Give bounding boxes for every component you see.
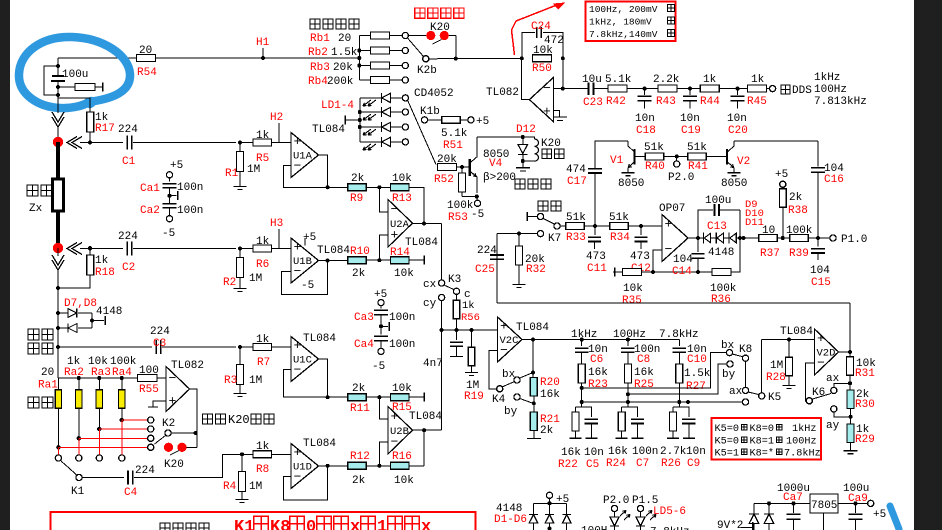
svg-text:+: +: [294, 338, 302, 353]
svg-text:U1D: U1D: [293, 462, 312, 474]
svg-text:R50: R50: [532, 63, 552, 75]
svg-text:1k: 1k: [95, 255, 109, 267]
svg-text:1M: 1M: [249, 273, 262, 285]
svg-text:R20: R20: [540, 377, 560, 389]
svg-text:LD5-6: LD5-6: [653, 506, 686, 518]
svg-text:R51: R51: [443, 140, 463, 152]
resistor R5 1k: [240, 142, 253, 144]
label jixie kaiguan (mechanical switch) K20: [415, 8, 425, 18]
chevron left at node B: [67, 243, 77, 255]
svg-text:100k: 100k: [786, 225, 813, 237]
U1D feedback loop: [284, 466, 328, 500]
svg-text:LD1-4: LD1-4: [321, 100, 354, 112]
transistor V4 8050: [469, 159, 471, 176]
svg-text:10n: 10n: [686, 446, 706, 458]
tick terminal LED bus: [344, 116, 346, 125]
second stage col1 R22 C5: [575, 407, 577, 412]
svg-text:Rb3: Rb3: [310, 62, 330, 74]
label xianliu dianzu (current-limiting resistors): [310, 19, 320, 29]
svg-text:K4: K4: [492, 394, 506, 406]
switch K6: [806, 398, 812, 404]
svg-text:R31: R31: [855, 368, 875, 380]
capacitor C20 10n: [736, 87, 740, 91]
rectifier diode Da: [753, 503, 755, 514]
svg-text:R37: R37: [760, 248, 780, 260]
second stage col3 R26 C9: [672, 407, 674, 412]
capacitor Ca2 100n: [163, 203, 177, 205]
svg-text:200k: 200k: [327, 76, 354, 88]
svg-text:16k: 16k: [634, 367, 654, 379]
svg-text:224: 224: [477, 245, 497, 257]
switch bx (left): [514, 377, 520, 383]
svg-text:1k: 1k: [256, 441, 270, 453]
svg-text:C8: C8: [637, 354, 650, 366]
resistor R31 10k: [849, 352, 851, 357]
svg-text:C16: C16: [824, 174, 844, 186]
switch K2b: [408, 38, 424, 56]
svg-text:100Hz: 100Hz: [814, 84, 847, 96]
switch K1: [61, 461, 70, 469]
svg-text:K1b: K1b: [420, 106, 440, 118]
relay contacts K20 red dots bottom: [164, 443, 173, 452]
resistor R3 1M: [238, 345, 242, 349]
svg-text:2k: 2k: [352, 475, 366, 487]
capacitor C3 224: [58, 346, 152, 348]
LED bus: [359, 98, 361, 142]
resistor R51 5.1k: [442, 117, 461, 124]
resistor R19 1M: [471, 330, 473, 347]
diode D12: [522, 137, 524, 145]
resistor R15 10k: [391, 394, 410, 401]
svg-text:+: +: [500, 319, 508, 334]
svg-text:D7,D8: D7,D8: [64, 298, 97, 310]
svg-text:R14: R14: [390, 247, 410, 259]
svg-text:9V*2: 9V*2: [717, 520, 743, 530]
wire TL082 inverting input node: [562, 58, 564, 89]
svg-text:K8: K8: [739, 344, 752, 356]
svg-text:C14: C14: [672, 266, 692, 278]
svg-text:Ca1: Ca1: [140, 183, 160, 195]
wire V2D output riser to phase wire: [849, 303, 851, 352]
svg-text:224: 224: [150, 326, 170, 338]
resistor Rb3: [359, 65, 370, 67]
label shuzidi (digital ground): [515, 179, 525, 189]
resistor R1 1M: [238, 141, 242, 145]
terminal -5 Ca4: [378, 348, 384, 354]
svg-text:K8: K8: [270, 518, 290, 530]
wire by bus (100Hz tap): [628, 364, 727, 394]
svg-text:R44: R44: [700, 96, 720, 108]
resistor R10 2k: [348, 257, 367, 264]
resistor R37 10: [759, 235, 778, 242]
resistor R8 1k: [242, 453, 253, 455]
capacitor C10 10n: [678, 340, 680, 347]
svg-text:R30: R30: [855, 399, 875, 411]
ground at TL082b plus input: [153, 401, 166, 407]
impedance Zx upper arm: [56, 142, 60, 179]
terminal to DDS: [767, 88, 770, 90]
svg-text:U2B: U2B: [390, 426, 409, 438]
svg-text:R18: R18: [95, 267, 115, 279]
svg-text:16k: 16k: [608, 446, 628, 458]
resistor R43 2.2k: [658, 85, 677, 92]
svg-text:1kHz: 1kHz: [792, 423, 816, 435]
resistor R38 2k: [781, 236, 785, 240]
resistor Rb4: [359, 79, 370, 81]
switch K3 cx: [439, 280, 445, 286]
svg-text:7.8kHz: 7.8kHz: [784, 448, 821, 460]
V2C feedback to K4: [489, 351, 498, 389]
svg-text:1k: 1k: [256, 130, 270, 142]
svg-text:C11: C11: [587, 263, 607, 275]
capacitor C17 474: [595, 141, 628, 169]
switch K3 c terminal: [453, 288, 459, 294]
capacitor C4 224: [82, 477, 124, 479]
diode clamp bus: [534, 502, 567, 504]
resistor R12 2k: [348, 462, 367, 469]
svg-text:0: 0: [306, 518, 316, 530]
svg-text:1M: 1M: [247, 164, 260, 176]
capacitor Ca3 100n: [374, 309, 388, 311]
svg-text:ax: ax: [826, 373, 840, 385]
svg-text:K20: K20: [228, 413, 250, 427]
svg-text:R8: R8: [256, 464, 269, 476]
svg-text:H1: H1: [256, 37, 270, 49]
capacitor C18 10n: [643, 87, 647, 91]
svg-text:1k: 1k: [462, 300, 475, 312]
svg-text:100n: 100n: [632, 446, 658, 458]
svg-text:x: x: [350, 518, 360, 530]
svg-text:2k: 2k: [540, 425, 554, 437]
wire bx bus (1kHz tap): [582, 353, 726, 388]
svg-text:K5: K5: [768, 392, 781, 404]
LED LD4: [360, 141, 382, 143]
svg-text:H2: H2: [270, 112, 283, 124]
red annotation box bottom: [51, 512, 476, 530]
capacitor C8 100n: [626, 338, 630, 342]
svg-text:V2C: V2C: [500, 335, 519, 347]
capacitor C6 10n: [580, 338, 584, 342]
svg-text:R12: R12: [350, 451, 370, 463]
switch ay circle: [742, 399, 748, 405]
resistor R4 1M: [240, 452, 244, 456]
svg-text:20: 20: [41, 367, 54, 379]
svg-text:474: 474: [566, 164, 586, 176]
svg-text:R56: R56: [461, 312, 480, 324]
switch by (right): [727, 361, 733, 367]
svg-text:R28: R28: [766, 372, 786, 384]
svg-text:R1: R1: [225, 168, 239, 180]
resistor R25 16k: [624, 364, 631, 383]
wire C25 column: [496, 234, 498, 303]
svg-text:7.8kHz: 7.8kHz: [650, 527, 690, 530]
svg-text:bx: bx: [502, 369, 516, 381]
LED LD3: [360, 126, 382, 128]
svg-text:R4: R4: [223, 481, 237, 493]
svg-text:cy: cy: [423, 298, 437, 310]
svg-text:R39: R39: [789, 248, 809, 260]
svg-text:2k: 2k: [789, 192, 803, 204]
resistor R9 2k: [328, 186, 348, 188]
svg-text:R2: R2: [223, 277, 236, 289]
svg-text:C24: C24: [531, 21, 551, 33]
op-amp U2B TL084: [388, 407, 413, 455]
wire main top bus y58: [58, 57, 137, 59]
svg-text:+: +: [294, 134, 302, 149]
power input wire: [741, 527, 753, 529]
red info box mV peaks: [586, 2, 676, 42]
svg-text:K2b: K2b: [417, 65, 437, 77]
svg-text:K1: K1: [71, 486, 85, 498]
resistor R20 16k: [532, 340, 534, 373]
wire K2b to main: [429, 57, 522, 60]
svg-text:100H: 100H: [581, 526, 607, 530]
svg-text:224: 224: [118, 231, 138, 243]
svg-text:-5: -5: [372, 361, 385, 373]
svg-text:C15: C15: [811, 277, 831, 289]
node B red (lower bridge node): [53, 243, 63, 253]
svg-text:+5: +5: [775, 169, 788, 181]
svg-text:ay: ay: [826, 420, 840, 432]
svg-text:100n: 100n: [389, 312, 415, 324]
svg-text:R10: R10: [350, 246, 370, 258]
svg-text:1kHz: 1kHz: [814, 72, 840, 84]
resistor R40 51k: [645, 153, 664, 160]
capacitor C16 104: [817, 141, 819, 167]
TL082b output wire: [190, 389, 198, 447]
svg-text:R34: R34: [610, 232, 630, 244]
power rail wire: [754, 502, 810, 504]
svg-text:K2: K2: [162, 418, 175, 430]
svg-text:R38: R38: [788, 205, 808, 217]
relay coil K20: [523, 137, 535, 139]
svg-text:V2: V2: [737, 156, 750, 168]
svg-text:1k: 1k: [703, 74, 717, 86]
diode D3: [566, 503, 568, 514]
svg-text:10n: 10n: [584, 447, 604, 459]
svg-text:R35: R35: [622, 295, 642, 307]
svg-text:16k: 16k: [540, 389, 560, 401]
svg-text:x: x: [421, 518, 431, 530]
svg-text:U1A: U1A: [293, 151, 313, 163]
svg-text:C17: C17: [567, 176, 587, 188]
svg-text:+: +: [665, 217, 673, 232]
svg-text:10k: 10k: [394, 475, 414, 487]
resistor R13 10k: [391, 184, 410, 191]
svg-text:R52: R52: [434, 174, 454, 186]
svg-text:+: +: [543, 104, 551, 119]
svg-text:10n: 10n: [727, 113, 747, 125]
diode D1: [533, 503, 535, 514]
resistor R28 1M: [788, 340, 790, 358]
op-amp U2A TL084: [388, 200, 413, 248]
svg-text:10k: 10k: [392, 173, 412, 185]
svg-text:R29: R29: [855, 434, 875, 446]
capacitor C2 224: [88, 247, 92, 251]
svg-text:R32: R32: [526, 264, 546, 276]
U1B feedback loop with -5 pin: [282, 261, 328, 295]
wire OP07 inverting feedback: [653, 250, 662, 272]
resistor Rb1: [359, 35, 370, 37]
resistor R45 1k: [748, 85, 767, 92]
U2A inverting input wire: [379, 187, 388, 212]
svg-text:C9: C9: [687, 458, 700, 470]
diode D2: [549, 503, 551, 514]
svg-text:Rb2: Rb2: [308, 47, 328, 59]
svg-text:Rb4: Rb4: [308, 76, 328, 88]
svg-text:100u: 100u: [705, 195, 731, 207]
svg-text:20k: 20k: [437, 154, 457, 166]
svg-text:Ca3: Ca3: [354, 312, 374, 324]
svg-text:R5: R5: [256, 153, 269, 165]
capacitor Ca4 100n: [374, 335, 388, 337]
U1C feedback loop: [284, 370, 328, 398]
node top-left corner: [57, 58, 59, 75]
svg-text:1k: 1k: [256, 236, 270, 248]
svg-text:Ca4: Ca4: [354, 339, 374, 351]
chevron left at node A: [67, 137, 77, 149]
capacitor 4n7: [456, 330, 458, 340]
svg-text:100Hz: 100Hz: [786, 437, 817, 448]
resistor R54 20: [137, 55, 156, 62]
svg-text:+5: +5: [170, 160, 183, 172]
svg-text:+5: +5: [873, 509, 886, 521]
mid tap tick Ca3/Ca4: [379, 324, 383, 328]
capacitor C15 104: [817, 238, 819, 247]
svg-text:R11: R11: [350, 403, 370, 415]
U1B output node: [326, 259, 330, 263]
label lia ge K20 liandong (two K20 linked): [202, 414, 212, 424]
capacitor 100u: [52, 75, 64, 77]
transistor V2 8050: [726, 149, 728, 165]
transistor V1 8050: [633, 149, 635, 165]
svg-text:1k: 1k: [751, 74, 765, 86]
svg-text:R40: R40: [645, 161, 665, 173]
svg-text:51k: 51k: [644, 142, 664, 154]
svg-text:C2: C2: [122, 262, 135, 274]
svg-text:CD4052: CD4052: [414, 88, 454, 100]
svg-text:10u: 10u: [582, 74, 602, 86]
second stage col2 R24 C7: [621, 407, 623, 412]
svg-text:20k: 20k: [333, 62, 353, 74]
svg-text:100k: 100k: [447, 200, 474, 212]
switch K20 contacts red dots: [408, 35, 426, 37]
svg-text:7.8kHz,140mV: 7.8kHz,140mV: [589, 29, 658, 40]
svg-text:TL084: TL084: [780, 326, 813, 338]
svg-text:10k: 10k: [394, 268, 414, 280]
svg-text:473: 473: [586, 251, 606, 263]
svg-text:-5: -5: [301, 280, 314, 292]
svg-text:1kHz: 1kHz: [571, 329, 597, 341]
svg-text:8050: 8050: [618, 178, 644, 190]
switch K7 upper tick: [526, 212, 528, 221]
trim resistor inside blue circle: [56, 85, 60, 89]
right dark border bar: [914, 0, 942, 530]
resistor Ra1 yellow: [57, 378, 59, 390]
svg-text:100n: 100n: [177, 205, 203, 217]
resistor R16 10k: [391, 462, 410, 469]
resistor R44 1k: [700, 85, 719, 92]
switch K1b: [421, 117, 427, 123]
svg-text:8050: 8050: [721, 178, 747, 190]
svg-text:TL084: TL084: [312, 124, 345, 136]
regulator 7805: [810, 494, 838, 513]
terminal +5 output: [868, 500, 874, 506]
resistor R55 100: [138, 375, 158, 382]
svg-text:ax: ax: [729, 386, 743, 398]
svg-text:+5: +5: [556, 494, 569, 506]
resistor Ra4 yellow: [121, 378, 123, 390]
svg-text:2k: 2k: [352, 383, 366, 395]
terminal -5 under V4: [476, 197, 478, 201]
wire ay bus: [582, 401, 743, 403]
LED LD2: [360, 111, 382, 113]
red annotation arrow: [512, 5, 559, 56]
svg-text:4n7: 4n7: [423, 358, 443, 370]
resistor R39 100k: [790, 235, 809, 242]
capacitor C11 473: [594, 226, 596, 235]
resistor Ra2 yellow: [78, 378, 80, 390]
svg-text:P2.0: P2.0: [668, 172, 694, 184]
Rb bus vertical: [358, 36, 360, 81]
switch K2 common: [165, 430, 171, 436]
resistor R42 5.1k: [608, 85, 627, 92]
wire TL082 output loop: [522, 58, 530, 99]
wire to V2C plus input: [442, 329, 498, 331]
svg-text:2k: 2k: [352, 268, 366, 280]
svg-text:K20: K20: [164, 459, 184, 471]
resistor R33 51k: [560, 225, 566, 227]
svg-text:+5: +5: [476, 116, 489, 128]
svg-text:2.2k: 2.2k: [653, 74, 680, 86]
resistor R17 1k: [58, 98, 90, 112]
svg-text:5.1k: 5.1k: [441, 128, 468, 140]
terminal P1.0: [830, 235, 836, 241]
svg-text:+: +: [169, 394, 177, 409]
chevron down to bridge top: [57, 98, 59, 113]
label dianqiao xudi (bridge virtual ground): [28, 329, 39, 340]
wire U2A output to cx riser: [441, 224, 443, 280]
svg-text:R27: R27: [686, 381, 706, 393]
svg-text:R26: R26: [661, 458, 681, 470]
svg-text:R9: R9: [350, 193, 363, 205]
svg-text:473: 473: [630, 251, 650, 263]
svg-text:224: 224: [135, 465, 155, 477]
svg-text:10k: 10k: [392, 383, 412, 395]
svg-text:Zx: Zx: [29, 203, 43, 215]
capacitor Ca1 100n: [163, 183, 177, 185]
switch by (left): [514, 394, 520, 400]
svg-text:100: 100: [139, 365, 159, 377]
svg-text:5.1k: 5.1k: [605, 74, 632, 86]
svg-text:−: −: [543, 81, 551, 96]
U2B output node: [422, 428, 426, 432]
capacitor C1 224: [88, 141, 92, 145]
resistor R41 51k: [688, 153, 707, 160]
svg-text:TL084: TL084: [409, 411, 442, 423]
svg-text:16k: 16k: [561, 447, 581, 459]
svg-text:R7: R7: [257, 357, 270, 369]
U2A non-inverting input wire: [379, 235, 388, 260]
capacitor C24 472: [522, 33, 535, 58]
resistor R34 51k: [610, 223, 629, 230]
svg-text:R25: R25: [634, 379, 654, 391]
bracket wire around 100u: [44, 66, 58, 95]
svg-text:C3: C3: [153, 338, 166, 350]
svg-text:R53: R53: [448, 212, 468, 224]
label xiabi dianzu (lower arm resistors): [160, 523, 170, 530]
resistor R53 100k: [459, 173, 466, 192]
